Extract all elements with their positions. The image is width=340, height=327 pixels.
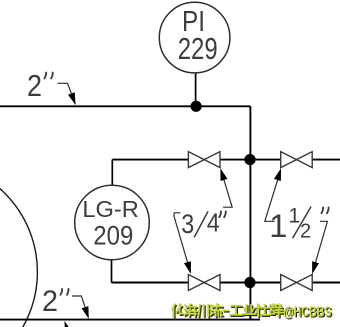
label 3/4 inch	[174, 168, 232, 274]
label 2 inch (header)	[27, 68, 76, 105]
valve V2 (1 1/2 inch, upper)	[281, 152, 313, 168]
svg-text:@HCBBS: @HCBBS	[283, 304, 331, 320]
pipe: bottom 2-inch line	[0, 319, 260, 321]
valve V4 (1 1/2 inch, lower)	[281, 275, 313, 291]
svg-text:2: 2	[27, 68, 42, 103]
svg-text:1: 1	[288, 205, 300, 228]
svg-text:4: 4	[207, 208, 220, 238]
leader to valve V2	[265, 170, 281, 221]
pipe: gauge upper line	[112, 159, 340, 161]
svg-text:229: 229	[178, 32, 218, 66]
wire: corner down to LG-R bubble	[111, 160, 113, 186]
watermark 化海川流-工业社群@HCBBS	[172, 304, 333, 322]
pipe: gauge lower / drain line	[112, 282, 340, 284]
svg-text:209: 209	[93, 221, 133, 251]
valve V3 (3/4 inch, lower)	[188, 275, 220, 291]
node: junction riser/drain line	[244, 277, 255, 288]
node: junction riser/upper line	[244, 154, 255, 165]
node: junction on header	[191, 101, 202, 112]
leader to valve V4	[313, 221, 328, 272]
instrument bubble LG-R 209	[75, 185, 150, 260]
arrowhead of cropped leader at bottom line	[65, 321, 72, 327]
vessel shell arc	[0, 161, 37, 327]
label 1 1/2 inch	[265, 168, 329, 274]
leader to valve V1	[221, 170, 232, 207]
instrument bubble PI 229	[159, 2, 230, 73]
wire: PI instrument tap	[195, 70, 197, 106]
label 2 inch (bottom line)	[42, 285, 89, 319]
svg-text:LG-R: LG-R	[82, 196, 139, 222]
pipe: riser from header down to drain	[249, 106, 251, 319]
wire: LG-R bubble to drain corner	[111, 260, 113, 283]
valve V1 (3/4 inch, upper)	[188, 152, 220, 168]
svg-text:1: 1	[269, 208, 287, 244]
svg-text:3: 3	[181, 209, 194, 239]
pipe: 2-inch header line	[0, 105, 250, 107]
leader to valve V3	[174, 213, 190, 272]
svg-text:2: 2	[42, 285, 58, 318]
